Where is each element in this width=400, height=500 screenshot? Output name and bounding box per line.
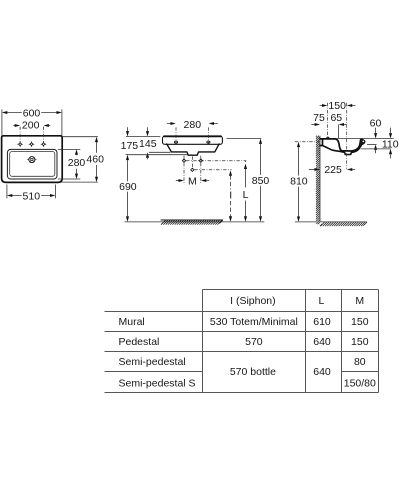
svg-text:80: 80 bbox=[354, 356, 366, 368]
svg-text:570 bottle: 570 bottle bbox=[230, 366, 276, 378]
tap centreline side bbox=[327, 103, 329, 137]
svg-text:65: 65 bbox=[330, 112, 342, 124]
plan view: drain strainer bbox=[27, 157, 36, 163]
dimension I (siphon height) bbox=[229, 170, 232, 221]
mounting centreline through wall bbox=[295, 141, 320, 143]
svg-text:810: 810 bbox=[290, 176, 308, 188]
extension line deck top right bbox=[337, 138, 394, 140]
floor line front view bbox=[125, 221, 265, 223]
svg-text:530 Totem/Minimal: 530 Totem/Minimal bbox=[210, 316, 298, 328]
svg-text:150: 150 bbox=[351, 316, 369, 328]
wall face line bbox=[319, 136, 321, 222]
svg-text:L: L bbox=[318, 295, 324, 307]
svg-text:280: 280 bbox=[68, 157, 86, 169]
plan view: faucet hole marker left bbox=[18, 142, 23, 147]
svg-text:600: 600 bbox=[23, 107, 41, 119]
front view: rim top accent bbox=[164, 135, 221, 137]
svg-text:145: 145 bbox=[139, 138, 157, 150]
dimension 280 (front holes) bbox=[167, 119, 218, 144]
dimension 850 bbox=[252, 139, 270, 222]
extension line bowl base right bbox=[361, 148, 392, 150]
side view: overflow rim hook bbox=[361, 139, 366, 144]
table grid bbox=[105, 290, 379, 393]
svg-text:150: 150 bbox=[351, 336, 369, 348]
floor line side view bbox=[320, 221, 367, 223]
marker water inlet right bbox=[199, 159, 202, 162]
svg-text:Mural: Mural bbox=[119, 316, 145, 328]
dimension 110 bbox=[382, 128, 399, 159]
plan view: faucet hole marker right bbox=[41, 142, 46, 147]
svg-text:510: 510 bbox=[23, 190, 41, 202]
side view: basin section bbox=[320, 137, 365, 154]
plan view: faucet hole marker centre bbox=[29, 142, 34, 147]
dimension 600 bbox=[2, 107, 62, 135]
plan view: bowl outer rim bbox=[7, 149, 57, 179]
front view: mounting hole right bbox=[207, 141, 210, 143]
plan view: outer basin body bbox=[2, 136, 63, 183]
marker drain outlet bbox=[191, 168, 194, 171]
svg-text:60: 60 bbox=[370, 117, 382, 129]
svg-text:I: I bbox=[229, 189, 232, 201]
dimension 225 bbox=[309, 164, 355, 176]
svg-text:75: 75 bbox=[313, 112, 325, 124]
dimension L bbox=[243, 161, 249, 222]
marker water inlet left bbox=[182, 159, 185, 162]
svg-text:110: 110 bbox=[382, 139, 399, 151]
svg-text:Semi-pedestal S: Semi-pedestal S bbox=[119, 378, 196, 390]
svg-text:225: 225 bbox=[324, 164, 342, 176]
dimension 75 bbox=[311, 112, 325, 126]
extension line drain bottom left bbox=[126, 154, 188, 156]
siphon centreline horizontals bbox=[186, 161, 246, 170]
svg-text:I (Siphon): I (Siphon) bbox=[230, 295, 276, 307]
svg-text:640: 640 bbox=[313, 336, 331, 348]
dimension 65 bbox=[330, 112, 346, 138]
svg-text:L: L bbox=[243, 189, 249, 201]
svg-text:150: 150 bbox=[328, 100, 346, 112]
svg-text:Pedestal: Pedestal bbox=[119, 336, 160, 348]
dimension 60 bbox=[367, 117, 381, 153]
dimension 460 bbox=[61, 137, 104, 182]
svg-text:175: 175 bbox=[121, 140, 139, 152]
drain centreline side bbox=[346, 103, 348, 169]
dimension 175 bbox=[121, 127, 139, 152]
svg-text:M: M bbox=[188, 175, 197, 187]
svg-text:850: 850 bbox=[252, 175, 270, 187]
svg-text:460: 460 bbox=[86, 153, 104, 165]
svg-text:690: 690 bbox=[119, 181, 137, 193]
svg-text:Semi-pedestal: Semi-pedestal bbox=[119, 356, 186, 368]
drain centreline front bbox=[191, 156, 193, 171]
extension line rim top left bbox=[126, 136, 160, 138]
dimension 145 bbox=[139, 127, 170, 159]
wall hatch band bbox=[316, 136, 320, 225]
dimension 200 bbox=[13, 120, 50, 142]
dimension 150 bbox=[320, 100, 356, 112]
dimension 690 bbox=[119, 155, 137, 222]
dimension 810 bbox=[290, 142, 308, 222]
svg-text:610: 610 bbox=[313, 316, 331, 328]
front view: mounting hole left bbox=[174, 141, 177, 143]
floor extension left of wall bbox=[295, 221, 316, 223]
floor hatch front view bbox=[161, 220, 223, 225]
svg-text:280: 280 bbox=[184, 119, 202, 131]
side view: tap hole bump bbox=[327, 137, 329, 139]
extension line rim top right bbox=[226, 138, 261, 140]
svg-text:570: 570 bbox=[245, 336, 263, 348]
svg-text:640: 640 bbox=[313, 366, 331, 378]
floor hatch side view bbox=[320, 222, 367, 226]
svg-text:150/80: 150/80 bbox=[344, 378, 376, 390]
svg-text:200: 200 bbox=[22, 120, 40, 132]
plan view: bowl inner edge bbox=[10, 152, 55, 177]
front view: rim bbox=[163, 136, 223, 144]
dimension M bbox=[176, 175, 209, 187]
front view: basin body with drain box bbox=[167, 144, 219, 155]
svg-text:M: M bbox=[355, 295, 364, 307]
siphon centreline verticals bbox=[184, 156, 201, 184]
dimension 280 (plan bowl depth) bbox=[58, 149, 86, 179]
dimension 510 bbox=[7, 185, 56, 203]
